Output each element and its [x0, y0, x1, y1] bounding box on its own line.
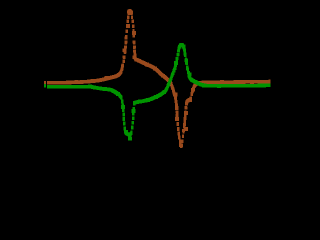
left end-cap tick (brown upper half)	[44, 81, 46, 84]
green curve (series 2: inverted trace, dip at x=130, peak at x=182)	[47, 43, 269, 136]
chart: two dotted spectra curves on black background	[0, 0, 307, 192]
brown curve dash fillers	[120, 9, 189, 132]
green curve point markers	[58, 43, 266, 140]
brown curve (series 1: dispersion-like trace, peak at x=130, dip at x=181)	[47, 9, 269, 148]
right end-cap tick (brown upper half)	[269, 79, 271, 83]
left end-cap tick (green lower half)	[44, 84, 46, 87]
right end-cap tick (green lower half)	[269, 83, 271, 87]
green curve dash fillers	[171, 44, 197, 84]
brown curve point markers	[59, 9, 254, 147]
